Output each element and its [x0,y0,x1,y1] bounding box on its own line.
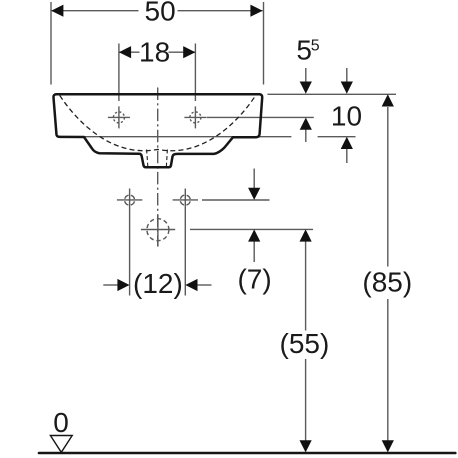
svg-text:0: 0 [53,407,69,438]
svg-text:10: 10 [331,100,362,131]
svg-text:(12): (12) [133,268,183,299]
svg-text:(7): (7) [237,264,271,295]
svg-text:5: 5 [311,37,320,54]
svg-text:5: 5 [296,35,312,66]
svg-text:50: 50 [145,0,176,27]
svg-text:(55): (55) [280,328,330,359]
svg-text:(85): (85) [362,267,412,298]
svg-text:18: 18 [139,37,170,68]
